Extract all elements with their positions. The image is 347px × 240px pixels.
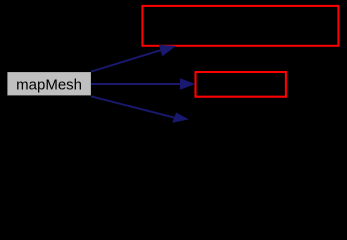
arrowhead to top node	[159, 45, 175, 56]
arrowhead to middle node	[180, 79, 194, 90]
edge mapMesh->bottom node (wire)	[91, 96, 188, 122]
edge mapMesh->top node (wire)	[91, 45, 175, 71]
arrowhead to bottom node	[173, 113, 188, 123]
node top (truncated callee, red border, label hidden on black)	[142, 6, 338, 46]
node mapMesh (current node, grey)	[7, 72, 91, 95]
node middle (truncated callee, red border, label hidden on black)	[196, 72, 286, 97]
edge mapMesh->middle node (wire)	[91, 79, 195, 90]
svg-text:mapMesh: mapMesh	[16, 76, 82, 93]
